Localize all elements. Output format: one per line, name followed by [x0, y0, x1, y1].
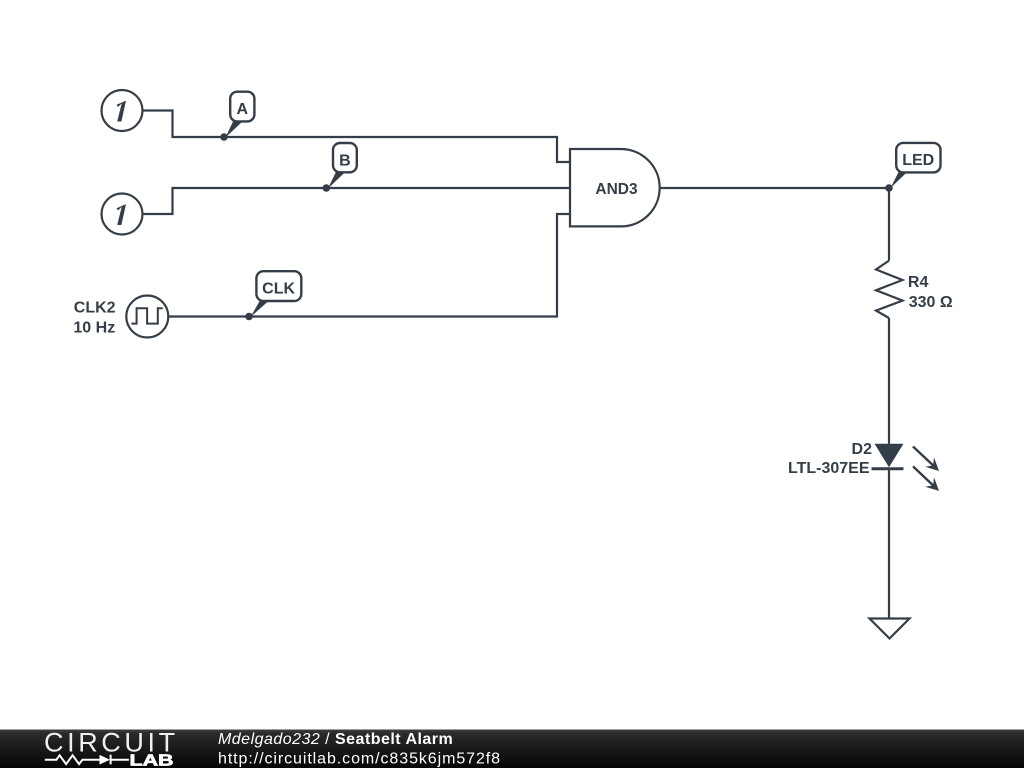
svg-text:LTL-307EE: LTL-307EE — [788, 460, 870, 477]
svg-text:A: A — [237, 101, 249, 118]
svg-text:AND3: AND3 — [595, 181, 638, 198]
svg-text:Mdelgado232 / Seatbelt Alarm: Mdelgado232 / Seatbelt Alarm — [218, 731, 453, 748]
svg-text:CLK2: CLK2 — [74, 300, 116, 317]
svg-text:R4: R4 — [908, 274, 929, 291]
svg-text:330 Ω: 330 Ω — [909, 294, 953, 311]
svg-text:CLK: CLK — [262, 281, 295, 298]
svg-text:D2: D2 — [852, 441, 873, 458]
svg-text:B: B — [339, 152, 351, 169]
svg-text:LED: LED — [902, 152, 934, 169]
svg-text:10 Hz: 10 Hz — [73, 319, 115, 336]
svg-text:http://circuitlab.com/c835k6jm: http://circuitlab.com/c835k6jm572f8 — [218, 750, 501, 767]
svg-text:LAB: LAB — [130, 752, 174, 768]
